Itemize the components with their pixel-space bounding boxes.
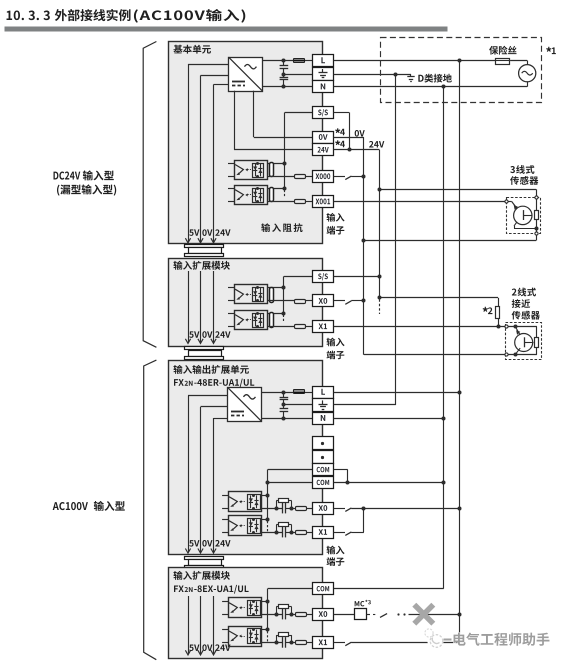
junction N wire U3	[282, 417, 286, 421]
wire ground rail	[395, 74, 397, 405]
wire S/S to 24V rail U2	[334, 276, 380, 278]
wire ground terminal to earth	[334, 74, 412, 76]
wire ground branch U3	[284, 404, 313, 406]
wire S/S to 24V U1	[334, 113, 350, 150]
wire 0V feed U2	[200, 271, 202, 342]
wire 5V feed U2	[188, 271, 190, 342]
power supply U3-PS	[228, 387, 262, 421]
wire 0V rail	[334, 137, 505, 355]
terminal X1 U3	[313, 527, 334, 539]
wire COM1 jumper U3	[334, 470, 348, 483]
optocoupler U4-PC1	[222, 627, 261, 647]
wire S/S common U1	[285, 113, 313, 198]
terminal spare2 U3	[313, 451, 334, 464]
junction COM-opto2 U4	[266, 628, 270, 632]
wire COM2 internal U3	[268, 482, 313, 484]
switch X1 U3	[345, 532, 351, 536]
label *2	[483, 307, 493, 314]
wire N from PSU to terminal	[262, 86, 312, 88]
wire 5V feed U3	[188, 396, 228, 553]
terminal X001 U1	[313, 196, 334, 208]
power supply U1-PS (AC/DC converter)	[229, 57, 263, 91]
label *1	[546, 47, 556, 54]
label *4 (0V)	[335, 128, 345, 135]
wire X1 switch to link U3	[351, 532, 364, 534]
wire L rail to X1 U4	[351, 614, 460, 642]
capacitor C1 (L-gnd)	[280, 61, 289, 75]
resistor U1-R0in	[295, 175, 306, 179]
wire resistor to X001	[305, 201, 313, 203]
junction on ground wire	[282, 73, 286, 77]
label 输入端子 U2	[327, 338, 345, 360]
wire 5V feed U4	[188, 596, 190, 654]
label 保险丝	[489, 46, 516, 55]
label FX2N-48ER-UA1/UL	[174, 379, 254, 388]
junction S/S-opto1 U2	[282, 286, 286, 290]
sensor 3-wire internals	[505, 196, 539, 235]
junction X0-L rail U4	[458, 613, 462, 617]
watermark dash	[444, 639, 452, 641]
label 2线式接近传感器	[512, 288, 540, 320]
label 输入扩展模块 U4	[173, 571, 229, 580]
bracket DC24V section	[143, 42, 156, 348]
resistor U2-R0in	[295, 300, 306, 304]
unit U1 基本单元 enclosure	[169, 42, 323, 244]
resistor input impedance U1-R0	[270, 163, 274, 177]
wire MC linkage	[367, 614, 376, 616]
connector U3-U4	[185, 557, 224, 569]
wire opto2 to X001 resistor	[267, 201, 294, 203]
terminal X1 U2	[313, 321, 334, 333]
label 输入输出扩展单元	[173, 365, 248, 374]
wire X1 switch stub U4	[334, 642, 346, 644]
wire 0V feed U4	[200, 596, 202, 654]
wire opto1 top U2	[267, 287, 284, 289]
junction X000-0V	[362, 175, 366, 179]
resistor input impedance U1-R1	[270, 188, 274, 202]
wire X0 to L rail U4	[409, 614, 460, 616]
resistor U1-R1in	[295, 200, 306, 204]
switch X0 U4	[380, 614, 387, 618]
optocoupler U1-PC1	[228, 186, 268, 205]
switch X0 U3	[345, 508, 351, 512]
wire source to N wire	[527, 82, 529, 87]
contact MC	[355, 609, 367, 620]
bracket AC100V section	[144, 360, 157, 660]
watermark text 电气工程师助手	[454, 633, 550, 646]
label D类接地	[418, 74, 451, 83]
wire opto2 top U2	[267, 313, 284, 315]
wire resistor to X1 U2	[305, 326, 313, 328]
wire 24V feed U4	[213, 596, 215, 654]
terminal X0 U3	[313, 503, 334, 515]
wire bleeder to X1 wire	[498, 318, 500, 326]
junction COM-opto1 U3	[266, 494, 270, 498]
heading rule	[5, 27, 448, 32]
unit U2 输入扩展模块 enclosure	[169, 259, 323, 347]
wire X1 switch stub U3	[334, 532, 346, 534]
junction S/S-24V U2	[378, 275, 382, 279]
fuse F-internal U1	[294, 59, 306, 63]
enclosure AC power source (dashed)	[381, 38, 542, 103]
sensor 2-wire enclosure	[506, 323, 542, 360]
wire COM common U4	[268, 589, 313, 642]
junction gnd wire U3	[282, 403, 286, 407]
wire PSU to 24V terminal	[234, 91, 313, 150]
fuse F-internal U3	[294, 390, 306, 394]
label 0V rail	[355, 130, 365, 137]
terminal S/S U2	[313, 271, 334, 283]
label 3线式传感器	[510, 165, 538, 185]
terminal X000 U1	[313, 171, 334, 183]
wire X001 to sensor signal	[334, 201, 506, 203]
terminal N U3	[313, 413, 334, 425]
terminal X0 U4	[313, 609, 334, 621]
arrowheads U3	[185, 549, 216, 554]
resistor U2-R0	[270, 288, 274, 303]
capacitor C2 U3	[280, 405, 289, 418]
junction L-rail U3	[458, 391, 462, 395]
mark X (do not use)	[414, 605, 433, 624]
wire X0 switch stub U2	[334, 300, 346, 302]
wire 24V feed U2	[213, 271, 215, 342]
wire L from PSU U3	[261, 392, 294, 394]
wire resistor to X0 U2	[305, 300, 313, 302]
label 输入端子 U1	[327, 213, 345, 235]
wire L from PSU to terminal	[262, 60, 294, 62]
junction S/S-24V U1	[348, 148, 352, 152]
RC input network U3-X1	[261, 523, 313, 538]
optocoupler U3-PC1	[222, 516, 261, 536]
ground symbol D类接地	[407, 74, 414, 82]
terminal L U1	[313, 55, 334, 67]
junction COM jumper U3	[346, 481, 350, 485]
unit U4 输入扩展模块 enclosure	[169, 568, 323, 659]
wire 5V feed	[188, 64, 229, 242]
junction X0-0V U2	[362, 299, 366, 303]
arrowheads U4	[185, 650, 216, 655]
terminal COM1 U3	[313, 464, 334, 476]
wire fuse to source	[510, 61, 527, 65]
wire X1 to 2-wire sensor	[334, 326, 505, 328]
junction N-rail U3	[442, 417, 446, 421]
junction 24V bleeder	[378, 296, 382, 300]
AC source G1	[519, 65, 536, 82]
wire opto1 top to common	[267, 163, 285, 165]
wire X000 switch stub	[334, 176, 346, 178]
junction S/S-opto2 U2	[282, 312, 286, 316]
wire X0 to MC contact U4	[334, 614, 355, 616]
optocoupler U1-PC0	[228, 161, 268, 180]
wire X0-X1 link U3	[363, 508, 365, 532]
label 5V 0V 24V U2	[189, 331, 230, 338]
resistor *2 bleeder	[496, 307, 500, 319]
terminal 24V U1	[313, 144, 334, 156]
sensor 3-wire enclosure	[507, 198, 541, 234]
junction 24V-sensor	[378, 188, 382, 192]
connector U2-U3	[185, 347, 224, 360]
terminal L U3	[313, 387, 334, 399]
wire opto1 top U3	[261, 495, 268, 497]
wire 0V to 3-wire sensor	[364, 235, 537, 240]
label 输入阻抗	[261, 223, 302, 232]
junction S/S-opto1 U1	[283, 162, 287, 166]
junction L rail start	[458, 59, 462, 63]
wire 0V feed	[201, 76, 229, 242]
wire opto2 top to common	[267, 188, 285, 190]
wire X0 to L rail U3	[351, 508, 460, 510]
wire opto2 top U3	[261, 519, 268, 521]
junction ground rail start	[394, 73, 398, 77]
wire 24V to 3-wire sensor	[379, 189, 536, 196]
optocoupler U3-PC0	[222, 492, 261, 512]
RC input network U4-X1	[261, 633, 313, 648]
wire opto1 top U4	[261, 601, 268, 603]
wire switch to 0V rail	[351, 176, 364, 178]
optocoupler U4-PC0	[222, 598, 261, 618]
label *4 (24V)	[335, 140, 345, 147]
wire X0 switch stub U3	[334, 508, 346, 510]
wire opto1 to X000 resistor	[267, 176, 294, 178]
junction COM-opto2 U3	[266, 518, 270, 522]
label 基本单元	[173, 45, 210, 54]
terminal COM U4	[313, 583, 334, 595]
terminal N U1	[313, 81, 334, 93]
junction L wire U3	[282, 391, 286, 395]
resistor U2-R1	[270, 313, 274, 328]
wire switch to 0V rail U2	[351, 300, 364, 302]
wire N terminal to source	[334, 86, 528, 88]
connector U1-U2	[185, 245, 224, 257]
wire S/S common U2	[284, 276, 313, 321]
label 输入扩展模块 U2	[173, 261, 229, 270]
terminal X1 U4	[313, 637, 334, 649]
label AC100V输入型	[53, 501, 125, 511]
terminal earth U3	[313, 399, 334, 412]
terminal earth U1	[313, 68, 334, 81]
wire COM2 to N rail U3	[334, 482, 444, 484]
wire 24V feed U3	[214, 418, 228, 552]
wire 24V feed	[214, 85, 229, 242]
wire 24V to bleeder resistor	[379, 298, 498, 307]
junction X0 link U3	[362, 507, 366, 511]
wire 24V rail	[334, 150, 380, 315]
junction bleeder-X1	[497, 325, 501, 329]
junction COM2-N rail U3	[442, 481, 446, 485]
optocoupler U2-PC1	[228, 311, 268, 330]
wire COM common U3	[268, 470, 313, 532]
junction 0V-sensor	[362, 239, 366, 243]
linkage dots	[397, 613, 405, 615]
wire opto1 to X0 resistor U2	[267, 300, 294, 302]
optocoupler U2-PC0	[228, 285, 268, 304]
switch X1 U4	[345, 642, 351, 646]
wire fuse to L terminal	[305, 60, 313, 62]
resistor U2-R1in	[295, 325, 306, 329]
heading text 10.3.3 外部接线实例(AC100V输入)	[7, 9, 246, 23]
label 5V 0V 24V U4	[189, 644, 230, 651]
label DC24V输入型(漏型输入型)	[53, 170, 116, 195]
junction X0-L rail U3	[458, 507, 462, 511]
capacitor C1 U3	[280, 392, 289, 405]
terminal spare1 U3	[313, 437, 334, 450]
RC input network U4-X0	[261, 605, 313, 620]
label 24V rail	[369, 141, 384, 147]
terminal S/S U1	[313, 107, 334, 119]
label 5V 0V 24V U1	[189, 229, 230, 236]
label 5V 0V 24V U3	[189, 540, 230, 547]
switch X000	[345, 176, 351, 180]
wire opto2 top U4	[261, 629, 268, 631]
wire N from PSU U3	[261, 418, 312, 420]
wire ground branch	[284, 74, 313, 76]
unit U3 输入输出扩展单元 enclosure	[169, 361, 323, 555]
label 输入端子 U3	[327, 546, 345, 566]
terminal COM2 U3	[313, 477, 334, 489]
wire L terminal to fuse	[334, 60, 496, 62]
wire resistor to X000	[305, 176, 313, 178]
capacitor C2 (gnd-N)	[280, 74, 289, 87]
switch X0 U2	[345, 301, 351, 305]
wire 0V feed U3	[201, 407, 228, 553]
arrowheads 5V/0V/24V U1	[185, 238, 216, 243]
junction COM-opto1 U4	[266, 600, 270, 604]
wire PSU to 0V terminal	[254, 91, 313, 138]
junction COM1-COM2 U3	[266, 481, 270, 485]
wire earth terminal to gnd rail U3	[334, 404, 396, 406]
watermark logo	[425, 629, 444, 649]
wire opto2 to X1 resistor U2	[267, 326, 294, 328]
wire N terminal to N rail U3	[334, 418, 444, 420]
terminal X0 U2	[313, 295, 334, 307]
junction on L wire	[282, 59, 286, 63]
wire N rail	[334, 87, 444, 589]
junction S/S-opto2 U1	[283, 187, 287, 191]
RC input network U3-X0	[261, 499, 313, 514]
wire L rail	[459, 61, 461, 615]
label FX2N-8EX-UA1/UL	[174, 585, 249, 594]
terminal 0V U1	[313, 132, 334, 144]
arrowheads U2	[185, 339, 216, 344]
wire L terminal to L rail U3	[334, 392, 460, 394]
junction on N wire	[282, 85, 286, 89]
fuse F1	[496, 59, 511, 65]
wire fuse to L U3	[305, 392, 313, 394]
label MC*3	[355, 600, 371, 607]
junction N rail start	[442, 85, 446, 89]
sensor 2-wire internals	[505, 325, 539, 357]
